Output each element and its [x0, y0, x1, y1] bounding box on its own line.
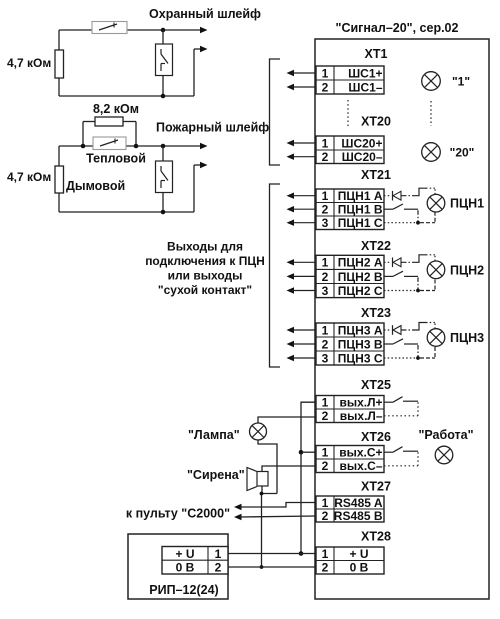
- lamp HL "Работа": [435, 446, 453, 464]
- diode VD3 (ПЦН3 linkage): [384, 325, 401, 335]
- svg-text:2: 2: [322, 409, 329, 423]
- svg-text:ШС20–: ШС20–: [342, 150, 383, 164]
- arrow ШС20–: [287, 154, 317, 160]
- svg-text:1: 1: [322, 547, 329, 561]
- ХТ23 pin labels: [322, 323, 383, 365]
- svg-text:ХТ27: ХТ27: [361, 480, 391, 494]
- arrow ПЦН3 В: [287, 341, 317, 347]
- label "20": [450, 146, 475, 160]
- svg-text:1: 1: [322, 66, 329, 80]
- svg-text:1: 1: [322, 446, 329, 460]
- svg-text:+ U: + U: [349, 547, 368, 561]
- arrow out to ШС+ (fire loop): [200, 143, 208, 149]
- label "Охранный шлейф": [149, 7, 261, 21]
- terminal block ХТ22: [316, 255, 384, 297]
- label ХТ20: [361, 115, 391, 129]
- label "Тепловой": [86, 152, 146, 166]
- terminal block ХТ1: [316, 66, 384, 94]
- svg-text:2: 2: [322, 270, 329, 284]
- node: junction fire right (R2 tap): [134, 144, 139, 149]
- arrow ПЦН1 А: [287, 193, 317, 199]
- node: junction fire bottom: [161, 210, 166, 215]
- svg-text:ХТ22: ХТ22: [361, 239, 391, 253]
- relay contact K1 (row B): [384, 204, 418, 209]
- arrow ПЦН3 А: [287, 327, 317, 333]
- svg-text:4,7 кОм: 4,7 кОм: [7, 56, 51, 70]
- lamp ПЦН2: [427, 261, 445, 279]
- arrow ШС1–: [287, 84, 317, 90]
- svg-text:ПЦН1 В: ПЦН1 В: [338, 203, 383, 217]
- terminal block ХТ27: [316, 496, 384, 522]
- svg-text:2: 2: [322, 459, 329, 473]
- wire: dash linkage A row ПЦН2: [402, 255, 436, 262]
- contact S1 security detector (NC contact in box): [92, 22, 127, 34]
- label "Пожарный шлейф": [156, 121, 269, 135]
- svg-text:подключения к ПЦН: подключения к ПЦН: [145, 254, 265, 268]
- svg-text:Охранный шлейф: Охранный шлейф: [149, 7, 261, 21]
- svg-text:Тепловой: Тепловой: [86, 152, 146, 166]
- svg-text:2: 2: [322, 561, 329, 575]
- svg-text:2: 2: [322, 509, 329, 523]
- svg-text:2: 2: [322, 150, 329, 164]
- wire: сирена/лампа common down to 0В: [262, 486, 278, 567]
- svg-text:Дымовой: Дымовой: [66, 179, 125, 193]
- svg-text:или выходы: или выходы: [168, 269, 243, 283]
- svg-text:к пульту "С2000": к пульту "С2000": [126, 507, 230, 521]
- svg-text:RS485 A: RS485 A: [334, 496, 383, 510]
- svg-text:2: 2: [215, 561, 222, 575]
- terminal block ХТ20: [316, 136, 384, 164]
- wire: C row dotted ПЦН1: [384, 212, 435, 223]
- svg-text:РИП–12(24): РИП–12(24): [149, 583, 218, 597]
- title "Сигнал–20", сер.02: [336, 21, 459, 35]
- label РИП–12(24): [149, 583, 218, 597]
- svg-text:"сухой контакт": "сухой контакт": [158, 283, 252, 297]
- ХТ22 pin labels: [322, 256, 383, 298]
- label ХТ22: [361, 239, 391, 253]
- node: junction C row ПЦН3: [416, 356, 420, 360]
- terminal block ХТ28: [316, 547, 384, 574]
- label "1": [452, 75, 470, 89]
- lamp HL1 "1": [422, 72, 441, 91]
- svg-text:8,2 кОм: 8,2 кОм: [93, 102, 139, 116]
- node: junction fire left (R2 tap): [81, 144, 86, 149]
- power supply РИП-12(24) enclosure: [128, 534, 228, 599]
- bracket: loops ШС1..ШС20 group: [270, 59, 281, 165]
- arrow ШС20+: [287, 140, 317, 146]
- wire: bottom wire of security loop: [59, 95, 194, 97]
- wire + arrow RS485 A to С2000: [234, 503, 316, 511]
- value label 8,2 кОм (R2): [93, 102, 139, 116]
- wire: 0В from РИП to XT28.2: [228, 566, 316, 568]
- node: junction fire switch tap: [161, 144, 166, 149]
- svg-text:"1": "1": [452, 75, 470, 89]
- arrow ПЦН1 В: [287, 206, 317, 212]
- svg-text:2: 2: [322, 337, 329, 351]
- terminal block ХТ23: [316, 323, 384, 365]
- svg-text:1: 1: [322, 189, 329, 203]
- resistor R1 4,7 кОм (security EOL): [55, 30, 64, 96]
- wire: dotted return K5 (вых.С): [384, 452, 418, 466]
- label ПЦН2: [450, 263, 484, 277]
- label "Сирена": [187, 468, 245, 482]
- wire + arrow out to ШС1− (security loop): [194, 46, 208, 96]
- svg-text:ПЦН3 А: ПЦН3 А: [338, 323, 383, 337]
- relay contact K5 (вых.С): [384, 447, 418, 453]
- note: outputs description text: [145, 240, 265, 298]
- lamp ПЦН1: [427, 194, 445, 212]
- label "к пульту С2000": [126, 507, 230, 521]
- ХТ21 pin labels: [322, 189, 383, 230]
- svg-text:0 В: 0 В: [176, 561, 195, 575]
- svg-text:3: 3: [322, 284, 329, 298]
- value label 4,7 кОм (R3): [7, 170, 51, 184]
- node: junction common on 0В wire: [260, 565, 264, 569]
- relay contact K3 (row B): [384, 339, 418, 344]
- wire: сирена to вых.С–: [262, 466, 316, 472]
- wire: dash-dot link B to C ПЦН3: [417, 345, 419, 358]
- value label 4,7 кОм (R1): [7, 56, 51, 70]
- switch S2 security tamper (box symbol): [156, 30, 173, 96]
- svg-text:1: 1: [322, 323, 329, 337]
- resistor R3 4,7 кОм (smoke EOL): [55, 146, 64, 212]
- ХТ26 pin labels: [322, 446, 383, 474]
- label ХТ1: [365, 47, 388, 61]
- ХТ1 pin labels: [322, 66, 383, 94]
- relay contact K2 (row B): [384, 271, 418, 276]
- diode VD2 (ПЦН2 linkage): [384, 258, 401, 268]
- svg-text:1: 1: [215, 547, 222, 561]
- ХТ25 pin labels: [322, 396, 383, 424]
- svg-text:1: 1: [322, 496, 329, 510]
- svg-text:"Сирена": "Сирена": [187, 468, 245, 482]
- svg-text:ПЦН2 В: ПЦН2 В: [338, 270, 383, 284]
- wire: dash linkage A row ПЦН3: [402, 323, 436, 331]
- label ХТ28: [361, 530, 391, 544]
- arrow ПЦН1 С: [287, 220, 317, 226]
- panel Сигнал-20 enclosure: [315, 39, 489, 599]
- svg-text:ПЦН3 С: ПЦН3 С: [338, 351, 383, 365]
- svg-text:вых.Л–: вых.Л–: [340, 409, 383, 423]
- svg-text:ХТ20: ХТ20: [361, 115, 391, 129]
- svg-text:ПЦН2: ПЦН2: [450, 263, 484, 277]
- svg-text:ХТ23: ХТ23: [361, 306, 391, 320]
- resistor R2 8,2 кОм (thermal shunt): [83, 117, 136, 146]
- lamp HL20 "20": [422, 143, 441, 162]
- wire: C row dotted ПЦН3: [384, 346, 435, 358]
- arrow ПЦН2 А: [287, 259, 317, 265]
- svg-text:ХТ28: ХТ28: [361, 530, 391, 544]
- ХТ20 pin labels: [322, 136, 383, 164]
- svg-text:0 В: 0 В: [350, 561, 369, 575]
- label "Лампа": [188, 428, 240, 442]
- ХТ28 pin labels: [322, 547, 369, 575]
- svg-text:4,7 кОм: 4,7 кОм: [7, 170, 51, 184]
- lamp HL "Лампа" (external): [250, 423, 267, 440]
- node: junction security bottom: [161, 94, 166, 99]
- node: junction C row ПЦН2: [416, 289, 420, 293]
- svg-text:вых.Л+: вых.Л+: [339, 396, 382, 410]
- node: junction вых.С+ on +U rail: [299, 450, 316, 455]
- label ХТ27: [361, 480, 391, 494]
- wire: dash-dot link B to C ПЦН2: [417, 277, 419, 290]
- svg-text:ШС1+: ШС1+: [348, 66, 382, 80]
- wire + arrow out to ШС− (fire loop): [194, 162, 208, 212]
- wire: лампа down to siren junction: [258, 440, 277, 494]
- terminal block ХТ26: [316, 446, 384, 473]
- speaker BA "Сирена" (external): [247, 468, 268, 491]
- svg-text:RS485 B: RS485 B: [334, 509, 383, 523]
- terminal block ХТ21: [316, 189, 384, 230]
- label "Работа": [418, 428, 473, 442]
- dotted continuation XT1..XT20: [347, 100, 349, 127]
- ХТ27 pin labels: [322, 496, 383, 523]
- svg-text:ПЦН2 С: ПЦН2 С: [338, 284, 383, 298]
- svg-text:1: 1: [322, 256, 329, 270]
- wire: top wire of fire loop: [59, 145, 201, 147]
- arrow ПЦН2 С: [287, 287, 317, 293]
- wire: top wire of security loop: [59, 29, 201, 31]
- terminal block РИП (+U / 0В): [162, 547, 228, 575]
- svg-text:1: 1: [322, 396, 329, 410]
- wire + arrow RS485 B to С2000: [234, 514, 316, 520]
- svg-text:3: 3: [322, 351, 329, 365]
- arrow out to ШС1+ (security loop): [200, 27, 208, 33]
- svg-text:ХТ1: ХТ1: [365, 47, 388, 61]
- svg-text:Пожарный шлейф: Пожарный шлейф: [156, 121, 269, 135]
- label ПЦН1: [450, 197, 484, 211]
- svg-text:"Сигнал–20", сер.02: "Сигнал–20", сер.02: [336, 21, 459, 35]
- svg-text:2: 2: [322, 80, 329, 94]
- svg-text:+ U: + U: [175, 547, 194, 561]
- svg-text:ПЦН2 А: ПЦН2 А: [338, 256, 383, 270]
- label ХТ23: [361, 306, 391, 320]
- wire: C row dotted ПЦН2: [384, 278, 435, 290]
- svg-text:ХТ26: ХТ26: [361, 430, 391, 444]
- svg-text:ПЦН1 А: ПЦН1 А: [338, 189, 383, 203]
- label "Дымовой": [66, 179, 125, 193]
- arrow ПЦН3 С: [287, 355, 317, 361]
- svg-text:"20": "20": [450, 146, 475, 160]
- label ПЦН3: [450, 331, 484, 345]
- svg-text:вых.С–: вых.С–: [340, 459, 383, 473]
- arrow ПЦН2 В: [287, 273, 317, 279]
- diode VD1 (ПЦН1 linkage): [384, 191, 401, 201]
- svg-text:"Лампа": "Лампа": [188, 428, 240, 442]
- svg-text:2: 2: [322, 203, 329, 217]
- wire: +U rail (вых.Л+ / вых.С+ to +U): [301, 402, 316, 553]
- svg-text:ШС20+: ШС20+: [341, 136, 382, 150]
- label ХТ21: [361, 168, 391, 182]
- arrow ШС1+: [287, 70, 317, 76]
- wire: +U from РИП to XT28.1: [228, 553, 316, 555]
- РИП pin labels: [175, 547, 221, 575]
- svg-text:Выходы для: Выходы для: [167, 240, 243, 254]
- wire: bottom wire of fire loop: [59, 211, 194, 213]
- switch S4 smoke detector (box symbol): [156, 146, 173, 212]
- svg-text:ПЦН1: ПЦН1: [450, 197, 484, 211]
- bracket: outputs ПЦН group: [270, 184, 281, 367]
- svg-text:1: 1: [322, 136, 329, 150]
- wire: dotted return K4 (вых.Л): [384, 402, 418, 416]
- svg-text:ПЦН3 В: ПЦН3 В: [338, 337, 383, 351]
- svg-text:ПЦН1 С: ПЦН1 С: [338, 216, 383, 230]
- label ХТ25: [361, 378, 391, 392]
- wire: dash-dot link B to C ПЦН1: [417, 210, 419, 223]
- svg-text:вых.С+: вых.С+: [339, 446, 382, 460]
- svg-text:"Работа": "Работа": [418, 428, 473, 442]
- node: junction security top: [161, 28, 166, 33]
- relay contact K4 (вых.Л): [384, 397, 418, 403]
- svg-text:ХТ21: ХТ21: [361, 168, 391, 182]
- dotted continuation lamps 1..20: [430, 101, 432, 126]
- node: junction C row ПЦН1: [416, 221, 420, 225]
- svg-text:ХТ25: ХТ25: [361, 378, 391, 392]
- node: junction +U rail to РИП wire: [299, 551, 304, 556]
- wire: dash linkage A row ПЦН1: [402, 188, 436, 196]
- wire: лампа to вых.Л–: [258, 417, 316, 423]
- terminal block ХТ25: [316, 396, 384, 423]
- label ХТ26: [361, 430, 391, 444]
- lamp ПЦН3: [427, 329, 445, 347]
- contact S3 thermal detector (НЗ contact in box): [93, 137, 126, 150]
- svg-text:3: 3: [322, 216, 329, 230]
- svg-text:ШС1–: ШС1–: [348, 80, 382, 94]
- svg-text:ПЦН3: ПЦН3: [450, 331, 484, 345]
- node: junction сирена-лампа common: [260, 492, 264, 496]
